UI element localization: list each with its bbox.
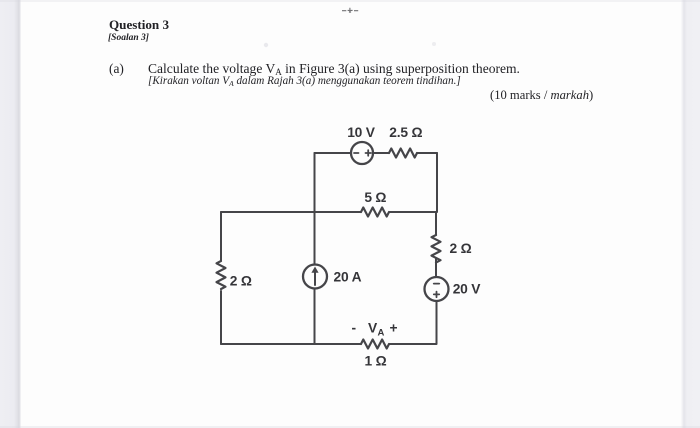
- wire: middle rail right segment: [390, 211, 436, 213]
- wire: bottom rail left segment: [221, 343, 361, 345]
- svg-text:2 Ω: 2 Ω: [230, 274, 252, 289]
- resistor R3 2 ohm left: [217, 261, 226, 289]
- svg-text:5 Ω: 5 Ω: [364, 190, 386, 205]
- wire: top rail right segment: [417, 152, 437, 154]
- voltage source V1 10V: [351, 142, 373, 164]
- wire: right vertical lower: [436, 301, 438, 344]
- marks: [490, 89, 593, 102]
- wire: right vertical upper: [435, 212, 437, 235]
- wire: left vertical top: [220, 212, 222, 261]
- heading: [Soalan 3]: [108, 34, 149, 44]
- svg-text:-: -: [352, 321, 357, 336]
- voltage source V2 20V: [425, 277, 449, 301]
- wire: right vertical middle: [435, 259, 437, 278]
- svg-text:20 A: 20 A: [334, 270, 362, 285]
- svg-text:+: +: [390, 321, 398, 336]
- svg-text:2 Ω: 2 Ω: [450, 241, 472, 256]
- svg-text:A: A: [378, 328, 385, 339]
- wire: middle vertical: [314, 153, 316, 344]
- wire: left vertical bottom: [220, 291, 222, 344]
- resistor R5 2 ohm right: [432, 235, 441, 263]
- top scan artifact mark: [342, 8, 358, 13]
- svg-text:10 V: 10 V: [347, 125, 376, 140]
- wire: right drop from top rail: [436, 153, 438, 212]
- left grey page edge: [0, 0, 21, 428]
- svg-text:V: V: [368, 321, 378, 336]
- faint scan smudge right: [432, 42, 436, 46]
- resistor R2 5 ohm: [361, 208, 389, 217]
- resistor R1 2.5 ohm: [389, 149, 417, 158]
- current source I1 20A: [303, 265, 327, 289]
- faint scan smudge left: [264, 43, 268, 47]
- wire: middle rail left segment: [221, 211, 361, 213]
- heading: Question 3: [109, 18, 169, 31]
- bottom faint edge: [0, 426, 700, 428]
- right grey page edge: [681, 0, 700, 428]
- svg-text:2.5 Ω: 2.5 Ω: [389, 125, 422, 140]
- prompt line english: [148, 62, 520, 76]
- wire: top rail left segment: [315, 152, 352, 154]
- prompt line malay: [148, 76, 461, 87]
- wire: bottom rail right segment: [390, 343, 436, 345]
- resistor R4 1 ohm: [361, 340, 389, 349]
- item (a): [109, 62, 124, 75]
- top faint edge: [0, 0, 700, 2]
- svg-text:20 V: 20 V: [453, 282, 482, 297]
- svg-text:1 Ω: 1 Ω: [365, 354, 387, 369]
- wire: top rail mid segment: [373, 152, 389, 154]
- label 10 V: [230, 125, 481, 369]
